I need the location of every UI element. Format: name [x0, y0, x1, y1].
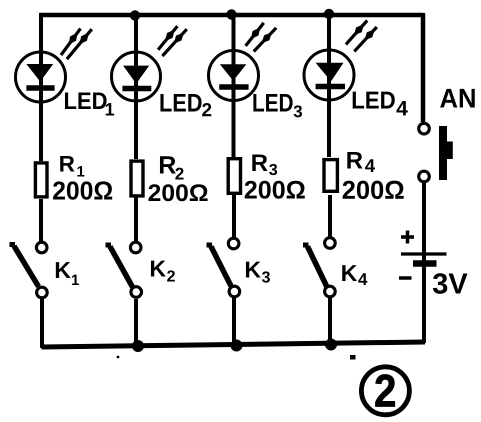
stray ink speck below bottom rail — [117, 356, 120, 359]
stray ink dash near figure number — [350, 355, 356, 360]
label R3 — [252, 154, 277, 175]
wire branch2 vertical upper — [134, 15, 138, 159]
label R4 value 200ohm — [343, 181, 404, 199]
label R2 — [160, 156, 184, 179]
label AN — [440, 89, 475, 108]
label LED4 — [353, 92, 408, 116]
wire branch3 vertical upper — [232, 15, 236, 157]
switch K4 — [303, 238, 335, 297]
label R1 value 200ohm — [53, 181, 112, 199]
LED LED1 — [16, 29, 92, 102]
figure number circled 2 — [361, 367, 409, 415]
LED LED2 — [112, 26, 187, 101]
label R2 value 200ohm — [148, 184, 207, 201]
wire top rail — [40, 13, 424, 18]
pushbutton AN — [419, 123, 453, 182]
label K1 — [56, 262, 79, 285]
switch K3 — [207, 238, 240, 297]
switch K2 — [106, 242, 142, 297]
label R1 — [60, 156, 84, 176]
label LED3 — [253, 94, 302, 117]
LED LED3 — [209, 23, 277, 101]
resistor R1 — [35, 163, 47, 197]
wire bottom rail — [42, 342, 426, 347]
junction top rail node branch2 — [130, 10, 140, 20]
wire right rail upper to AN — [421, 13, 426, 122]
LED LED4 — [304, 21, 377, 101]
label LED1 — [65, 92, 114, 115]
wire branch4 switch-to-bottom — [328, 298, 332, 344]
wire branch4 vertical upper — [327, 15, 331, 157]
resistor R3 — [228, 159, 240, 194]
junction bottom rail node branch3 — [231, 340, 243, 352]
wire branch3 resistor-to-switch — [232, 193, 236, 238]
wire branch2 resistor-to-switch — [134, 197, 138, 242]
wire branch4 resistor-to-switch — [328, 195, 332, 237]
junction top rail node branch3 — [226, 9, 236, 19]
wire AN-to-battery-to-bottom — [422, 183, 426, 343]
wire branch1 vertical upper — [39, 13, 43, 161]
wire branch1 resistor-to-switch — [39, 199, 43, 242]
wire branch1 switch-to-bottom — [40, 299, 44, 348]
wire branch2 switch-to-bottom — [134, 299, 138, 346]
switch K1 — [10, 242, 48, 298]
battery plus sign — [401, 231, 414, 244]
label R3 value 200ohm — [245, 181, 305, 199]
junction bottom rail node branch4 — [325, 339, 337, 351]
label K3 — [246, 262, 270, 283]
label battery value 3V — [433, 273, 468, 294]
junction bottom rail node branch2 — [132, 340, 144, 352]
wire branch3 switch-to-bottom — [232, 298, 236, 345]
battery minus sign — [399, 276, 412, 280]
resistor R4 — [324, 160, 337, 192]
resistor R2 — [131, 161, 143, 196]
battery 3V plates — [401, 254, 447, 264]
junction top rail node branch4 — [324, 9, 334, 19]
label LED2 — [160, 94, 211, 116]
label R4 — [347, 152, 375, 172]
label K2 — [151, 261, 175, 282]
label K4 — [342, 265, 367, 285]
